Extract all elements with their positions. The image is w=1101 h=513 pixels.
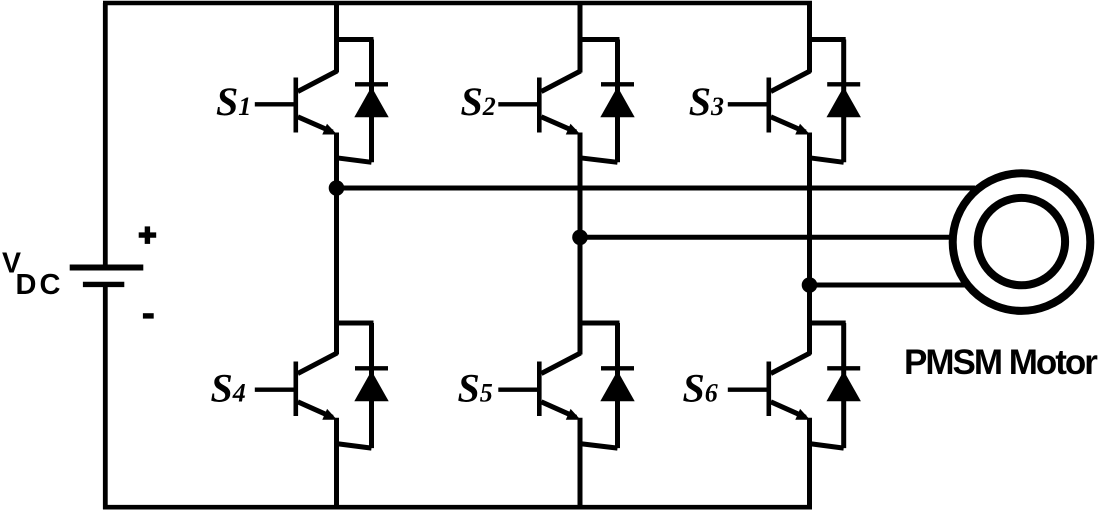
diode D4 branch wire <box>369 323 374 448</box>
transistor S2 base lead <box>498 102 539 106</box>
wire: leg 1 upper (bus to S1) <box>334 3 339 73</box>
transistor S3 base bar <box>766 78 771 133</box>
transistor Q (S3) collector slant <box>771 71 810 92</box>
wire: leg 3 middle <box>807 133 812 355</box>
transistor Q (S5) collector slant <box>541 353 580 374</box>
svg-text:S4: S4 <box>211 366 246 411</box>
diode D1 cathode bar <box>355 82 388 86</box>
wire: leg 2 upper (bus to S2) <box>578 3 583 73</box>
wire: top jumper to diode D1 <box>337 37 374 42</box>
diode D6 cathode bar <box>827 366 860 370</box>
transistor S2 emitter with arrow <box>541 117 576 132</box>
wire: leg 2 lower to bottom bus <box>578 418 583 510</box>
wire: left vertical to battery + <box>103 3 108 265</box>
transistor S1 base lead <box>255 102 296 106</box>
diode D6 branch wire <box>841 323 846 448</box>
wire: bottom jumper from diode D6 <box>810 444 844 449</box>
wire: bottom jumper from diode D5 <box>580 444 618 449</box>
node A junction dot <box>329 180 345 196</box>
diode D5 cathode bar <box>601 366 634 370</box>
diode D3 cathode bar <box>827 82 860 86</box>
transistor S4 base lead <box>255 388 296 392</box>
wire: bottom jumper from diode D3 <box>810 158 844 163</box>
motor M outer circle <box>953 173 1091 311</box>
transistor S6 emitter with arrow <box>771 402 806 418</box>
transistor S5 base bar <box>537 362 542 417</box>
wire: leg 3 lower to bottom bus <box>807 418 812 510</box>
wire: leg 1 lower to bottom bus <box>334 418 339 510</box>
diode D4 triangle <box>354 371 388 401</box>
transistor S6 base lead <box>728 388 769 392</box>
svg-text:DC: DC <box>16 269 64 301</box>
wire: top jumper to diode D3 <box>810 37 846 42</box>
battery VDC long plate (+) <box>70 265 144 271</box>
diode D2 triangle <box>600 87 634 117</box>
svg-text:S1: S1 <box>216 79 251 124</box>
transistor Q (S2) collector slant <box>541 71 580 92</box>
wire: bottom jumper from diode D2 <box>580 158 618 163</box>
diode D2 cathode bar <box>601 82 634 86</box>
wire: leg 3 upper (bus to S3) <box>807 3 812 73</box>
wire: leg 2 middle <box>578 133 583 355</box>
node B junction dot <box>572 230 588 246</box>
svg-text:PMSM Motor: PMSM Motor <box>904 343 1098 382</box>
svg-text:S2: S2 <box>461 79 496 124</box>
transistor S5 emitter with arrow <box>541 402 576 418</box>
wire: top jumper to diode D5 <box>580 321 620 326</box>
wire: top jumper to diode D2 <box>580 37 620 42</box>
diode D2 branch wire <box>615 40 620 163</box>
diode D1 branch wire <box>369 40 374 163</box>
battery - polarity label <box>143 313 154 318</box>
wire: top jumper to diode D4 <box>337 321 374 326</box>
svg-text:S6: S6 <box>683 366 718 411</box>
diode D5 branch wire <box>615 323 620 448</box>
battery VDC short plate (-) <box>83 282 124 287</box>
transistor S3 emitter with arrow <box>771 117 806 132</box>
transistor S1 emitter with arrow <box>298 117 333 132</box>
diode D1 triangle <box>354 87 388 117</box>
wire: phase B to motor <box>580 235 951 240</box>
diode D4 cathode bar <box>355 366 388 370</box>
battery + polarity label <box>139 232 157 237</box>
wire: top jumper to diode D6 <box>810 321 846 326</box>
svg-text:S3: S3 <box>689 79 724 124</box>
diode D3 triangle <box>827 87 861 117</box>
transistor S5 base lead <box>498 388 539 392</box>
wire: bottom DC bus <box>103 505 812 510</box>
motor M inner circle <box>978 198 1065 285</box>
transistor Q (S4) collector slant <box>298 353 337 374</box>
transistor Q (S6) collector slant <box>771 353 810 374</box>
transistor S3 base lead <box>728 102 769 106</box>
node C junction dot <box>802 277 818 293</box>
transistor S1 base bar <box>293 78 298 133</box>
svg-text:S5: S5 <box>458 366 493 411</box>
wire: battery - to bottom bus <box>103 284 108 509</box>
transistor S2 base bar <box>537 78 542 133</box>
diode D6 triangle <box>827 371 861 401</box>
transistor Q (S1) collector slant <box>298 71 337 92</box>
diode D3 branch wire <box>841 40 846 163</box>
wire: phase A to motor <box>337 186 976 191</box>
wire: leg 1 middle <box>334 133 339 355</box>
wire: phase C to motor <box>810 283 966 288</box>
transistor S4 emitter with arrow <box>298 402 333 418</box>
transistor S4 base bar <box>293 362 298 417</box>
wire: top DC bus <box>103 1 812 6</box>
diode D5 triangle <box>600 371 634 401</box>
transistor S6 base bar <box>766 362 771 417</box>
wire: bottom jumper from diode D1 <box>337 158 372 163</box>
wire: bottom jumper from diode D4 <box>337 444 372 449</box>
